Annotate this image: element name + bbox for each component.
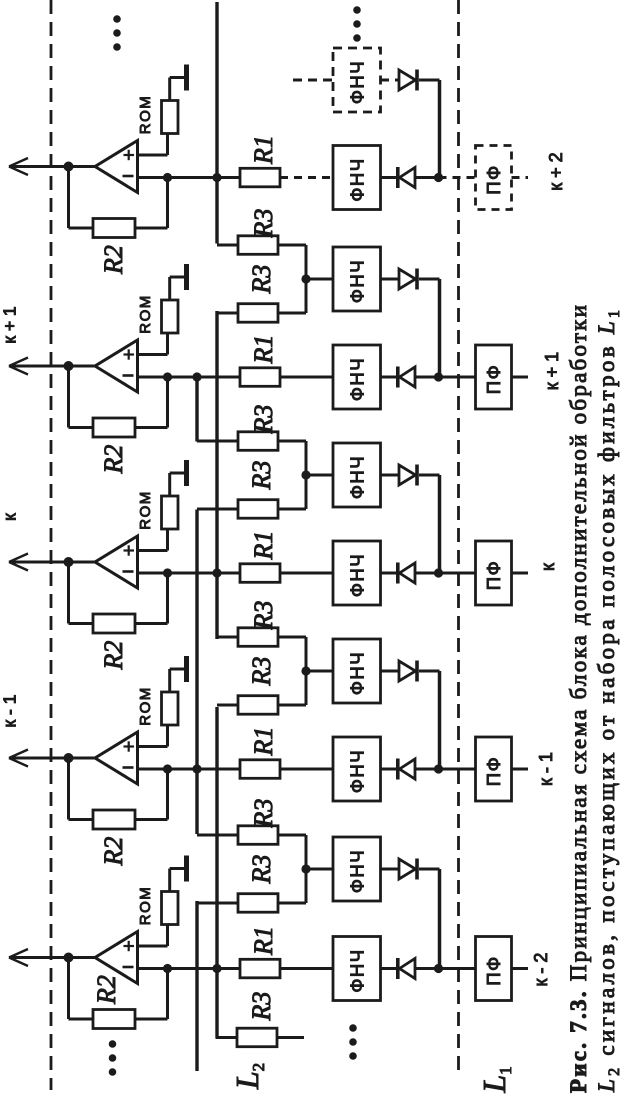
svg-text:ПФ: ПФ <box>483 560 504 590</box>
svg-text:ROM: ROM <box>137 886 154 926</box>
svg-text:R2: R2 <box>99 445 128 475</box>
svg-text:L2 сигналов, поступающих от на: L2 сигналов, поступающих от набора полос… <box>594 310 620 1093</box>
svg-text:R3: R3 <box>249 799 278 829</box>
svg-text:ROM: ROM <box>137 490 154 530</box>
svg-text:R3: R3 <box>247 461 276 491</box>
svg-text:R1: R1 <box>249 135 278 165</box>
svg-text:ПФ: ПФ <box>483 756 504 786</box>
svg-text:R3: R3 <box>247 992 276 1022</box>
svg-text:ФНЧ: ФНЧ <box>347 60 368 104</box>
svg-text:ФНЧ: ФНЧ <box>347 357 368 401</box>
svg-text:R3: R3 <box>247 657 276 687</box>
svg-text:ПФ: ПФ <box>483 955 504 985</box>
svg-text:R3: R3 <box>249 405 278 435</box>
svg-text:ПФ: ПФ <box>483 164 504 194</box>
svg-text:к: к <box>538 563 558 571</box>
svg-text:ФНЧ: ФНЧ <box>347 157 368 201</box>
svg-text:к - 1: к - 1 <box>536 752 556 786</box>
svg-text:к + 1: к + 1 <box>0 306 20 343</box>
svg-text:ПФ: ПФ <box>483 364 504 394</box>
svg-text:R3: R3 <box>249 601 278 631</box>
svg-text:ФНЧ: ФНЧ <box>347 749 368 793</box>
svg-text:R1: R1 <box>249 926 278 956</box>
svg-text:R3: R3 <box>247 265 276 295</box>
svg-text:R3: R3 <box>247 855 276 885</box>
svg-text:R1: R1 <box>249 531 278 561</box>
svg-text:R1: R1 <box>249 335 278 365</box>
svg-text:R2: R2 <box>99 641 128 671</box>
svg-text:к + 2: к + 2 <box>546 152 566 190</box>
svg-text:R1: R1 <box>249 727 278 757</box>
svg-text:R3: R3 <box>249 209 278 239</box>
svg-text:ROM: ROM <box>137 294 154 334</box>
svg-text:R2: R2 <box>99 837 128 867</box>
svg-text:ФНЧ: ФНЧ <box>347 948 368 992</box>
svg-text:к - 1: к - 1 <box>0 695 20 728</box>
svg-text:ФНЧ: ФНЧ <box>347 849 368 893</box>
svg-text:ФНЧ: ФНЧ <box>347 553 368 597</box>
svg-text:к - 2: к - 2 <box>531 953 551 987</box>
svg-text:R2: R2 <box>92 975 121 1005</box>
svg-text:R2: R2 <box>99 245 128 275</box>
svg-text:к + 1: к + 1 <box>542 352 562 390</box>
svg-text:ФНЧ: ФНЧ <box>347 455 368 499</box>
svg-text:Рис. 7.3. Принципиальная схема: Рис. 7.3. Принципиальная схема блока доп… <box>566 305 591 1093</box>
svg-text:ФНЧ: ФНЧ <box>347 651 368 695</box>
svg-text:ROM: ROM <box>137 95 154 135</box>
svg-text:к: к <box>0 513 20 521</box>
svg-text:ROM: ROM <box>137 686 154 726</box>
svg-text:ФНЧ: ФНЧ <box>347 259 368 303</box>
